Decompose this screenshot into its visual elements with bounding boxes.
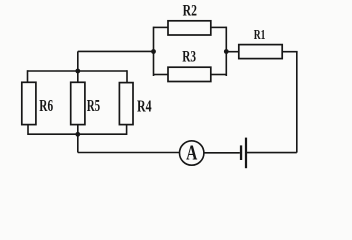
wire: ammeter to battery xyxy=(204,152,240,154)
wire: R5 top lead xyxy=(77,71,79,83)
resistor R6 xyxy=(22,82,36,124)
wire: left bar of R2/R3 parallel pair xyxy=(153,27,155,76)
wire: R3 left lead xyxy=(154,74,169,76)
node: junction dot bottom of R5 xyxy=(75,132,80,137)
wire: R2 right lead xyxy=(211,26,227,28)
svg-text:R2: R2 xyxy=(183,3,197,20)
wire: vertical from top junction to R2/R3 feed xyxy=(77,51,79,71)
node: junction dot top of R5 xyxy=(75,69,80,74)
wire: top bus of R6/R5/R4 bank xyxy=(28,70,128,72)
resistor R1 xyxy=(239,45,282,59)
battery cell: short plate xyxy=(240,145,242,160)
wire: R1 left lead xyxy=(226,51,239,53)
wire: node to parallel pair left bar xyxy=(78,50,154,52)
wire: right bar of R2/R3 parallel pair xyxy=(225,27,227,76)
node: junction dot at R2/R3 right bar xyxy=(224,49,229,54)
resistor R3 xyxy=(168,67,211,81)
ammeter A xyxy=(180,141,204,165)
svg-text:R4: R4 xyxy=(137,96,152,115)
svg-text:R6: R6 xyxy=(39,96,53,115)
wire: R2 left lead xyxy=(154,26,169,28)
resistor R4 xyxy=(119,83,133,125)
wire: battery to right corner xyxy=(247,152,297,154)
resistor R5 xyxy=(71,82,85,124)
wire: bottom bus of R6/R5/R4 bank xyxy=(28,133,127,135)
wire: right vertical riser xyxy=(296,52,298,153)
svg-text:A: A xyxy=(186,141,198,165)
node: junction dot at R2/R3 left bar xyxy=(151,49,156,54)
wire: bottom loop to ammeter xyxy=(78,152,180,154)
wire: R4 top lead xyxy=(126,70,128,83)
wire: R5 bottom lead xyxy=(77,124,79,134)
wire: R4 bottom lead xyxy=(126,124,128,135)
wire: R1 right lead xyxy=(282,51,297,53)
battery cell: long plate xyxy=(245,138,247,169)
svg-text:R1: R1 xyxy=(254,27,266,42)
resistor R2 xyxy=(168,21,211,35)
svg-text:R5: R5 xyxy=(87,96,100,115)
wire: R6 top lead xyxy=(27,70,29,82)
wire: R3 right lead xyxy=(211,74,227,76)
svg-text:R3: R3 xyxy=(182,49,196,66)
wire: drop from bottom junction to battery loop xyxy=(77,134,79,152)
wire: R6 bottom lead xyxy=(27,124,29,135)
